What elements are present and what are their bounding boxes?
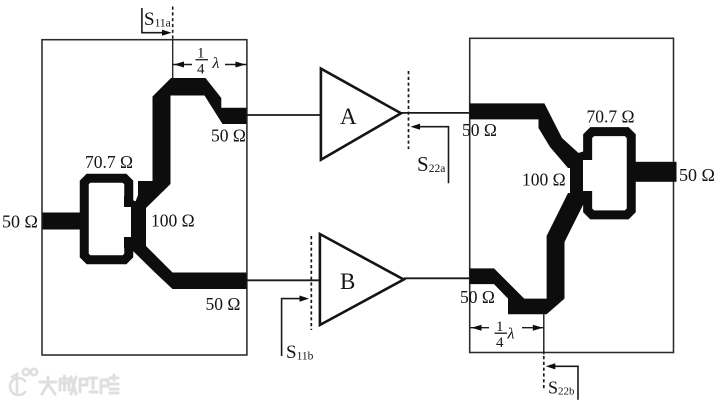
resistor 100 ohm right <box>570 157 586 195</box>
right combiner enclosure box <box>470 38 674 352</box>
S22a leader arrow <box>411 124 449 184</box>
svg-text:4: 4 <box>496 335 504 351</box>
right upper branch microstrip <box>470 103 584 168</box>
svg-text:λ: λ <box>212 55 220 72</box>
left ring lower stub <box>124 237 138 248</box>
S22b leader arrow <box>546 363 578 400</box>
wire from amplifier B <box>404 277 470 279</box>
right ring upper stub <box>578 149 592 160</box>
svg-text:100 Ω: 100 Ω <box>522 170 566 190</box>
S11a reference plane dashed line <box>172 7 174 79</box>
watermark logo <box>10 369 37 395</box>
left ring upper stub <box>124 196 138 207</box>
S22a reference plane dashed line <box>408 71 410 149</box>
S11a leader arrow <box>142 8 172 36</box>
right ring gap (left side break) <box>583 160 594 191</box>
input microstrip 50 ohm line <box>43 213 82 230</box>
svg-text:70.7 Ω: 70.7 Ω <box>85 152 133 172</box>
svg-text:50 Ω: 50 Ω <box>206 294 241 314</box>
wire to amplifier A <box>247 114 323 116</box>
svg-text:50 Ω: 50 Ω <box>679 165 715 185</box>
S11b leader arrow <box>282 296 309 357</box>
svg-text:50 Ω: 50 Ω <box>460 287 495 307</box>
svg-text:50 Ω: 50 Ω <box>462 120 497 140</box>
quarter-wave dimension right <box>470 319 543 351</box>
left upper branch microstrip <box>133 78 247 208</box>
S22b reference plane line <box>543 313 545 390</box>
quarter-wave dimension left <box>173 46 247 78</box>
svg-text:λ: λ <box>507 326 515 343</box>
left ring 70.7 ohm quarter-wave arms <box>84 178 129 260</box>
S11b reference plane dashed line <box>310 236 312 330</box>
svg-text:4: 4 <box>197 62 205 78</box>
wire from amplifier A <box>401 112 470 114</box>
output microstrip 50 ohm line <box>630 162 677 182</box>
amplifier B <box>320 234 404 325</box>
watermark text <box>40 375 118 394</box>
svg-text:50 Ω: 50 Ω <box>211 126 246 146</box>
amplifier A <box>321 69 401 160</box>
left divider enclosure box <box>42 40 247 355</box>
right ring 70.7 ohm quarter-wave arms <box>588 132 632 215</box>
wire to amplifier B <box>247 279 322 281</box>
svg-text:100 Ω: 100 Ω <box>151 211 195 231</box>
left ring gap (right side break) <box>124 207 135 238</box>
svg-text:50 Ω: 50 Ω <box>2 212 38 232</box>
left lower branch microstrip <box>133 237 247 289</box>
svg-text:70.7 Ω: 70.7 Ω <box>587 107 635 127</box>
svg-text:B: B <box>340 269 355 294</box>
resistor 100 ohm left <box>131 204 146 241</box>
right ring lower stub <box>578 191 592 202</box>
svg-text:A: A <box>340 104 357 129</box>
right lower branch microstrip <box>470 193 584 314</box>
